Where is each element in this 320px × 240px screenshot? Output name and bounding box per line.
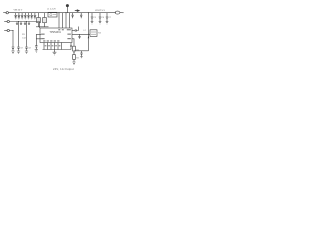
capacitor C4: [24, 13, 27, 20]
resistor R1: [73, 46, 79, 51]
ground G2: [17, 51, 20, 54]
svg-text:VOUT 5 V: VOUT 5 V: [95, 10, 105, 12]
capacitor C1: [14, 13, 17, 20]
svg-text:C8: C8: [28, 48, 30, 50]
capacitor C8 bulk: [37, 13, 41, 27]
capacitor C22: [106, 13, 111, 24]
wire PVIN pin 1: [58, 13, 60, 28]
capacitor C19 comp: [80, 51, 82, 59]
wire PVIN pin 4: [69, 13, 71, 28]
wire divider drop A: [18, 22, 20, 47]
test point TP1: [66, 4, 69, 13]
junction dots EN wire: [13, 21, 28, 31]
capacitor C7: [34, 13, 37, 20]
capacitor C9 bulk: [43, 13, 47, 27]
pin BOOT stub: [72, 30, 75, 32]
wire bulk cap bus: [36, 26, 49, 28]
input terminal J1 VIN: [3, 12, 8, 14]
wire VIN top rail: [8, 12, 116, 14]
ground G6: [72, 62, 75, 65]
wire PVIN pin 2: [62, 13, 64, 28]
resistor R2: [73, 55, 79, 60]
capacitor C3: [21, 13, 24, 20]
capacitor C16: [35, 46, 38, 50]
wire comp network: [36, 34, 41, 45]
capacitor C20: [91, 13, 96, 24]
pin SW wire: [72, 33, 90, 35]
pin VSENSE stub: [72, 39, 74, 46]
junction dots: [58, 12, 89, 53]
ground G5: [53, 50, 57, 55]
svg-text:R1: R1: [76, 49, 78, 51]
capacitor C14: [17, 47, 23, 51]
ground G3: [25, 51, 28, 54]
capacitor C11: [80, 13, 82, 19]
capacitor C15: [25, 47, 31, 51]
svg-text:L1 2.2uH: L1 2.2uH: [47, 9, 56, 11]
wire FB path: [74, 50, 89, 52]
svg-text:C5: C5: [94, 17, 96, 19]
wire R1 to R2: [73, 51, 75, 55]
capacitor C21: [99, 13, 104, 24]
capacitor C6: [30, 13, 33, 20]
capacitor C18 snub: [78, 34, 80, 39]
wire R2 to ground: [73, 59, 75, 61]
svg-text:C9: C9: [20, 48, 22, 50]
pin number marks: [45, 45, 61, 46]
svg-text:C6: C6: [102, 17, 104, 19]
inductor L2: [84, 30, 102, 37]
wire GND bus: [43, 49, 72, 51]
terminal J4 VOUT: [115, 11, 124, 14]
ground G1: [11, 51, 14, 54]
wire divider drop B: [26, 22, 28, 47]
wire PVIN pin 3: [65, 13, 67, 28]
terminal J2 EN: [4, 20, 9, 22]
svg-text:TPS54331: TPS54331: [50, 31, 62, 34]
wire EN to IC: [9, 22, 39, 29]
svg-text:24V, 1A Output: 24V, 1A Output: [53, 67, 74, 71]
thermal pad arrow EP: [70, 43, 72, 50]
IC U1 TPS54331: [40, 28, 72, 43]
node VOUT arrow: [88, 13, 90, 51]
capacitor C2: [18, 13, 21, 20]
terminal J3 SS: [4, 29, 9, 31]
svg-text:VIN 24 V: VIN 24 V: [14, 10, 23, 12]
net arrow current flow: [75, 9, 80, 12]
svg-text:C7: C7: [109, 17, 111, 19]
svg-text:R2: R2: [76, 58, 78, 60]
ferrite bead FB1: [48, 12, 57, 17]
capacitor C5: [27, 13, 30, 20]
wire GND pin stubs: [44, 43, 62, 50]
ground G4: [35, 50, 38, 53]
capacitor C13: [12, 47, 15, 51]
capacitor C17 boot: [75, 27, 78, 32]
wire SS down: [9, 31, 13, 47]
capacitor C10 boot: [71, 13, 73, 19]
node labels left: [16, 22, 30, 25]
